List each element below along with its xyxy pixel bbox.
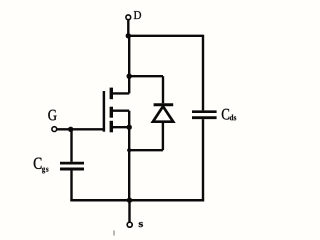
transistor Q1 channel bar bottom: [110, 121, 113, 133]
label D: [134, 11, 141, 19]
wire source stub: [113, 126, 129, 128]
wire diode anode lead: [162, 122, 164, 151]
terminal G: [52, 127, 57, 132]
wire source vertical: [128, 111, 130, 201]
capacitor Cds bottom plate: [192, 116, 217, 119]
node diode top junction: [127, 74, 132, 79]
wire diode top: [129, 75, 163, 77]
wire top rail: [128, 35, 203, 37]
terminal D: [126, 15, 131, 20]
transistor Q1 gate bar: [103, 91, 106, 132]
wire right vertical lower: [202, 119, 204, 201]
label s: [139, 222, 143, 227]
wire D lead: [127, 20, 129, 36]
capacitor Cds top plate: [192, 110, 217, 113]
ink speck: [113, 231, 115, 236]
wire gate lead: [57, 128, 105, 130]
diode D1 cathode bar: [154, 103, 174, 106]
wire drain vertical: [128, 36, 130, 94]
label Cgs C: [34, 158, 42, 169]
wire right vertical upper: [202, 35, 204, 111]
diode D1 triangle: [153, 106, 173, 121]
terminal s: [127, 222, 132, 227]
wire drain stub: [112, 92, 130, 94]
label G: [48, 110, 56, 121]
wire bottom rail: [70, 199, 204, 202]
wire Cgs upper lead: [70, 129, 72, 162]
label Cgs g: [42, 167, 45, 173]
label Cgs s: [46, 168, 48, 172]
transistor Q1 channel bar middle: [110, 107, 113, 118]
node diode bottom junction: [127, 148, 131, 152]
label Cds d: [230, 115, 234, 121]
transistor Q1 channel bar top: [110, 88, 113, 100]
capacitor Cgs bottom plate: [60, 168, 84, 171]
label Cds C: [222, 109, 229, 120]
capacitor Cgs top plate: [60, 162, 84, 165]
wire diode cathode lead: [162, 76, 164, 103]
wire Cgs lower lead: [70, 170, 72, 201]
label Cds s: [234, 116, 236, 120]
node bottom rail junction: [127, 198, 132, 203]
wire body stub: [113, 109, 129, 111]
wire s lead: [128, 200, 130, 222]
node source junction: [127, 125, 132, 130]
node drain junction: [126, 33, 131, 38]
node gate junction: [68, 127, 73, 132]
wire diode bottom: [129, 149, 163, 151]
